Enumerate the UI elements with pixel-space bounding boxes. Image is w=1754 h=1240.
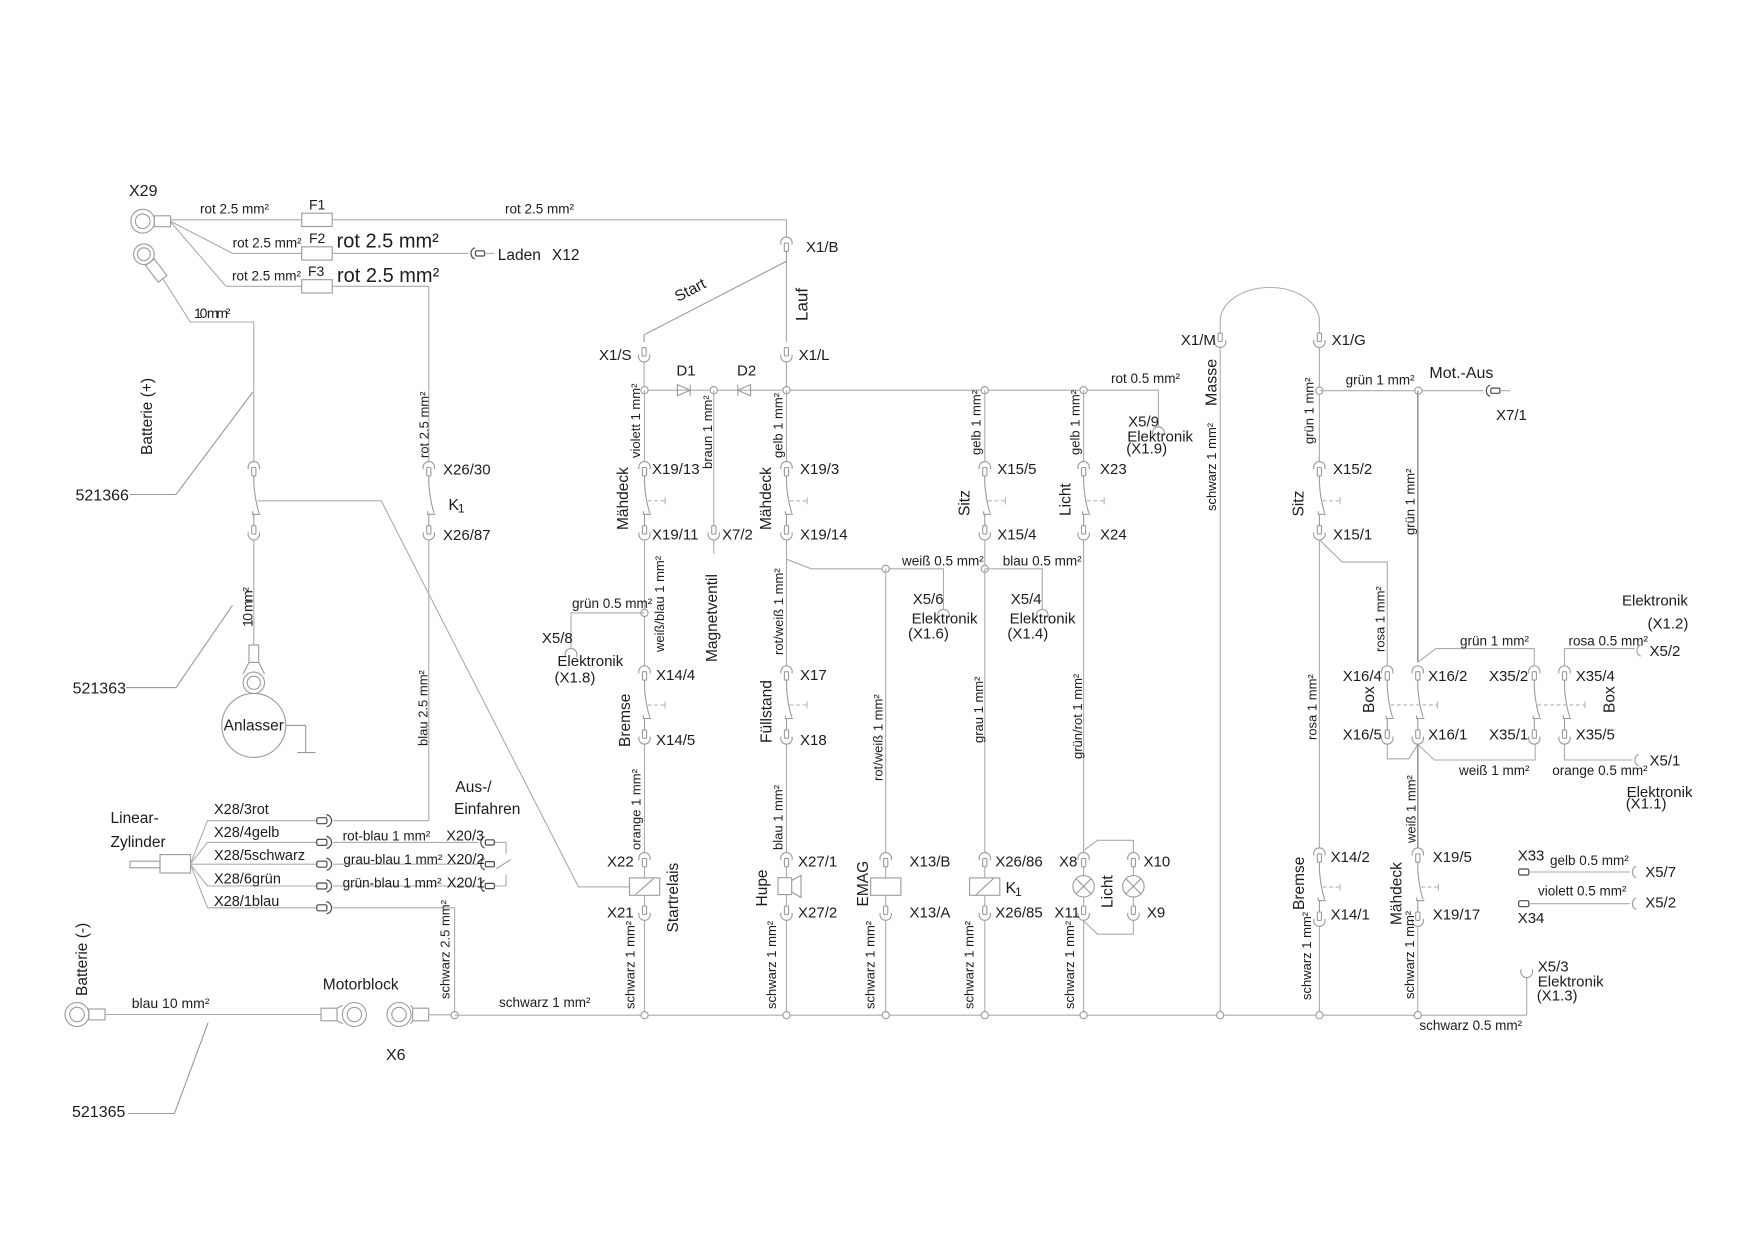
svg-text:X5/2: X5/2: [1650, 643, 1681, 660]
node ground bus at K1 column: [981, 1012, 988, 1019]
wire lead X28/6 gruen: [191, 864, 317, 887]
connector X7/2: [708, 526, 753, 544]
label Magnetventil: [704, 574, 721, 662]
connector X21: [607, 905, 650, 922]
connector X19/3: [781, 461, 839, 478]
label Maehdeck left: [615, 467, 632, 530]
label Fuellstand: [759, 680, 776, 743]
svg-text:(X1.8): (X1.8): [555, 670, 596, 687]
svg-text:rosa 1 mm²: rosa 1 mm²: [1304, 674, 1319, 740]
svg-text:X5/7: X5/7: [1645, 864, 1676, 881]
wire lead X28/4 gelb: [191, 825, 317, 864]
connector X15/5: [979, 461, 1036, 478]
connector X19/11: [639, 526, 699, 544]
svg-text:grau-blau 1 mm²: grau-blau 1 mm²: [343, 852, 443, 867]
connector X19/14: [781, 526, 848, 544]
diode D1: [676, 362, 695, 395]
wire gelb 1 mm² to X23: [1068, 389, 1084, 461]
label Batterie (+): [139, 378, 156, 455]
terminal X5/2 Elektronik (X1.2): [1622, 593, 1688, 661]
connector X14/1: [1314, 906, 1370, 926]
switch contact between X19/3 and X19/14: [785, 476, 807, 526]
svg-text:X26/85: X26/85: [995, 905, 1043, 922]
node bus at X1/L column: [783, 387, 790, 394]
svg-text:10 mm²: 10 mm²: [194, 305, 231, 321]
wire orange 1 mm² X14/5 to X22: [629, 744, 645, 853]
connector X34: [1518, 901, 1545, 927]
wire start feed from switch to Startrelais: [258, 501, 630, 887]
svg-text:weiß 1 mm²: weiß 1 mm²: [1404, 774, 1419, 844]
svg-text:rot/weiß 1 mm²: rot/weiß 1 mm²: [871, 694, 886, 781]
svg-text:Bremse: Bremse: [617, 694, 634, 747]
connector X19/13: [639, 461, 700, 478]
connector X26/85: [979, 905, 1043, 922]
node junction gruen at X1/G column: [1316, 387, 1323, 394]
svg-text:blau 2.5 mm²: blau 2.5 mm²: [416, 669, 431, 746]
switch contact between X17 and X18: [785, 680, 807, 730]
wire blau 10 mm² battery negative: [106, 995, 322, 1015]
ring terminal X29: [129, 183, 171, 233]
ring terminal X6: [386, 1003, 429, 1065]
wire 10 mm² battery positive: [163, 279, 255, 627]
label Box left: [1361, 686, 1378, 713]
label Bremse left: [617, 694, 634, 747]
svg-text:F3: F3: [308, 263, 325, 279]
switch contact X16/4-X16/5: [1386, 680, 1394, 730]
label Sitz left: [957, 490, 974, 516]
svg-text:X8: X8: [1059, 854, 1077, 871]
svg-text:X5/4: X5/4: [1011, 591, 1042, 608]
terminal X5/4 Elektronik (X1.4): [1007, 591, 1076, 642]
wire lead X28/5 schwarz: [191, 848, 317, 864]
wire grau 1 mm² to X26/86: [971, 569, 986, 853]
svg-text:Einfahren: Einfahren: [454, 801, 520, 818]
svg-text:X28/3rot: X28/3rot: [214, 802, 269, 818]
svg-text:X14/1: X14/1: [1331, 906, 1370, 923]
svg-text:weiß 0.5 mm²: weiß 0.5 mm²: [901, 553, 984, 568]
wire Lauf X1/B to X1/L: [785, 261, 787, 342]
svg-text:X27/2: X27/2: [798, 905, 837, 922]
svg-text:(X1.4): (X1.4): [1007, 625, 1048, 642]
svg-text:braun 1 mm²: braun 1 mm²: [700, 395, 715, 469]
actuator link Box left: [1391, 701, 1438, 708]
node ground bus at Bremse column: [1316, 1012, 1323, 1019]
svg-text:X28/4gelb: X28/4gelb: [214, 825, 279, 841]
switch contact between X15/5 and X15/4: [984, 476, 1006, 526]
svg-text:Magnetventil: Magnetventil: [704, 574, 721, 662]
connector X20/1: [447, 876, 495, 892]
connector X18: [781, 730, 827, 749]
svg-text:521363: 521363: [73, 681, 126, 698]
node ground bus at Maehdeck column: [1414, 1012, 1421, 1019]
node ground bus at Licht column: [1080, 1012, 1087, 1019]
label Maehdeck right: [1389, 862, 1406, 925]
svg-text:X19/5: X19/5: [1433, 849, 1472, 866]
svg-text:X24: X24: [1100, 527, 1127, 544]
svg-text:grün 1 mm²: grün 1 mm²: [1403, 468, 1418, 535]
connector X15/2: [1314, 461, 1373, 478]
node bus at Magnetventil column: [710, 387, 717, 394]
wire rosa 0.5 mm² X35/4 to X5/2: [1565, 634, 1649, 666]
net ground bus schwarz 1 mm²: [455, 1014, 1527, 1016]
terminal X5/8 Elektronik (X1.8): [542, 630, 624, 687]
wire violett 1 mm² to X19/13: [628, 383, 645, 462]
wire schwarz 1 mm² X13/A to ground bus: [863, 920, 886, 1015]
svg-text:X22: X22: [607, 854, 634, 871]
connector X28/6: [317, 880, 332, 892]
svg-text:X1/S: X1/S: [599, 347, 632, 364]
node ground bus at Hupe column: [783, 1012, 790, 1019]
svg-text:X14/5: X14/5: [656, 732, 695, 749]
actuator link Box right: [1538, 701, 1585, 708]
svg-text:F2: F2: [309, 230, 326, 246]
svg-text:X35/2: X35/2: [1489, 668, 1528, 685]
switch contact between X14/4 and X14/5: [643, 680, 665, 730]
svg-text:Lauf: Lauf: [793, 288, 812, 321]
connector X35/5: [1559, 727, 1615, 745]
wire link X16/5 to X16/1: [1387, 744, 1418, 759]
label Batterie (-): [74, 923, 91, 996]
node junction gruen down branch: [1415, 387, 1422, 394]
svg-text:X28/5schwarz: X28/5schwarz: [214, 848, 305, 864]
svg-text:(X1.9): (X1.9): [1126, 440, 1167, 457]
terminal X5/7: [1632, 864, 1676, 881]
wire gelb 1 mm² to X19/3: [771, 390, 787, 462]
label Maehdeck 2nd: [758, 467, 775, 530]
wire schwarz 1 mm² X21 to ground bus: [623, 920, 645, 1015]
svg-text:X35/5: X35/5: [1576, 727, 1615, 744]
wire schwarz 1 mm² X27/2 to ground bus: [764, 920, 787, 1015]
switch blade at X20/2: [496, 860, 510, 869]
svg-text:Mot.-Aus: Mot.-Aus: [1429, 365, 1493, 382]
terminal X5/9 Elektronik (X1.9): [1126, 414, 1193, 458]
svg-text:X5/6: X5/6: [913, 591, 944, 608]
svg-text:schwarz 1 mm²: schwarz 1 mm²: [623, 920, 638, 1009]
svg-text:X1/B: X1/B: [806, 239, 839, 256]
svg-text:X26/30: X26/30: [443, 461, 491, 478]
node ground bus at Masse column: [1217, 1012, 1224, 1019]
svg-text:rot 2.5 mm²: rot 2.5 mm²: [337, 265, 440, 287]
wire lamp top bracket to X10: [1084, 840, 1134, 852]
wire weiss 1 mm² X16/1 down to X19/5: [1404, 744, 1419, 848]
terminal X5/3 Elektronik (X1.3): [1521, 959, 1604, 1005]
svg-text:X15/4: X15/4: [997, 527, 1036, 544]
svg-text:grün 0.5 mm²: grün 0.5 mm²: [572, 596, 653, 611]
svg-text:X21: X21: [607, 905, 634, 922]
svg-text:Motorblock: Motorblock: [323, 977, 399, 994]
wire rot/weiss 1 mm² to X13/B: [871, 569, 886, 853]
wire stub X20/3: [495, 842, 506, 853]
connector X33: [1518, 847, 1545, 875]
svg-text:Box: Box: [1602, 686, 1619, 713]
svg-text:orange 0.5 mm²: orange 0.5 mm²: [1552, 763, 1648, 778]
svg-text:X18: X18: [800, 732, 827, 749]
svg-text:schwarz 1 mm²: schwarz 1 mm²: [499, 995, 591, 1010]
svg-text:schwarz 0.5 mm²: schwarz 0.5 mm²: [1419, 1018, 1522, 1033]
wire schwarz 1 mm² Masse to ground bus: [1204, 347, 1220, 1015]
svg-text:Batterie (-): Batterie (-): [74, 923, 91, 996]
wire braun 1 mm² to X7/2: [700, 390, 715, 526]
wire blau 1 mm² X18 to X27/1: [771, 744, 787, 853]
svg-text:X27/1: X27/1: [798, 854, 837, 871]
svg-text:Batterie (+): Batterie (+): [139, 378, 156, 455]
svg-text:X16/2: X16/2: [1428, 668, 1467, 685]
connector battery switch bottom: [248, 526, 259, 540]
connector X26/86: [979, 853, 1043, 871]
svg-text:X16/4: X16/4: [1343, 668, 1382, 685]
svg-text:F1: F1: [309, 196, 326, 212]
connector X35/1: [1489, 727, 1540, 745]
svg-text:X20/2: X20/2: [447, 852, 485, 868]
label Licht switch: [1058, 483, 1075, 516]
connector X1/B: [781, 237, 839, 256]
svg-text:X16/5: X16/5: [1343, 727, 1382, 744]
connector X16/5: [1343, 727, 1393, 745]
svg-text:X20/1: X20/1: [447, 876, 485, 892]
wire schwarz 1 mm² X11 to ground bus: [1062, 920, 1084, 1015]
node junction to X5/8: [641, 609, 648, 616]
svg-text:Füllstand: Füllstand: [759, 680, 776, 743]
terminal X12 Laden: [471, 247, 579, 264]
starter motor Anlasser: [222, 693, 286, 757]
svg-text:schwarz 1 mm²: schwarz 1 mm²: [1204, 422, 1219, 511]
connector X27/2: [781, 905, 837, 922]
wire gruen/rot 1 mm² X24 to X8: [1070, 540, 1085, 853]
svg-text:Licht: Licht: [1100, 875, 1117, 908]
svg-text:blau 1 mm²: blau 1 mm²: [771, 784, 786, 850]
label K1 contact: [448, 497, 465, 516]
wire orange 0.5 mm² X35/5 to X5/1: [1552, 744, 1648, 778]
solenoid EMAG: [855, 861, 901, 907]
svg-text:gelb 1 mm²: gelb 1 mm²: [771, 392, 786, 458]
svg-text:X28/1blau: X28/1blau: [214, 894, 279, 910]
svg-text:Startrelais: Startrelais: [665, 862, 682, 932]
ring terminal starter: [243, 645, 264, 694]
wire weiss 1 mm² X16/1 to X35/1: [1418, 744, 1535, 778]
wire gruen 1 mm² to Mot.-Aus X7/1: [1319, 373, 1483, 391]
svg-text:X15/5: X15/5: [997, 461, 1036, 478]
svg-text:schwarz 1 mm²: schwarz 1 mm²: [1062, 920, 1077, 1009]
connector X28/1: [317, 902, 332, 914]
connector X35/4: [1559, 666, 1615, 685]
svg-text:grün 1 mm²: grün 1 mm²: [1346, 373, 1416, 388]
svg-text:X26/87: X26/87: [443, 527, 491, 544]
node ground bus at Startrelais column: [641, 1012, 648, 1019]
connector X19/5: [1412, 848, 1472, 866]
svg-text:rot 2.5 mm²: rot 2.5 mm²: [337, 230, 440, 252]
fuse F3: [302, 263, 333, 293]
svg-text:schwarz 2.5 mm²: schwarz 2.5 mm²: [438, 899, 453, 999]
wire weiss/blau 1 mm² X19/11 to X14/4: [645, 540, 668, 666]
svg-text:Bremse: Bremse: [1291, 857, 1308, 910]
svg-text:(X1.1): (X1.1): [1626, 796, 1667, 813]
node ground bus at EMAG column: [882, 1012, 889, 1019]
svg-text:X19/13: X19/13: [652, 461, 700, 478]
wire X1/L to bus node: [785, 362, 787, 387]
svg-text:Elektronik: Elektronik: [557, 653, 623, 670]
svg-text:X14/2: X14/2: [1331, 849, 1370, 866]
label Bremse right: [1291, 857, 1308, 910]
switch contact X16/2-X16/1: [1417, 680, 1425, 730]
svg-text:Sitz: Sitz: [957, 490, 974, 516]
svg-text:rosa 1 mm²: rosa 1 mm²: [1373, 586, 1388, 652]
svg-text:violett 0.5 mm²: violett 0.5 mm²: [1538, 883, 1627, 898]
terminal X5/2 lower: [1632, 894, 1676, 911]
wire violett 0.5 mm² X34 to X5/2: [1529, 883, 1630, 903]
svg-text:X11: X11: [1054, 905, 1080, 922]
wire rosa 1 mm² X15/1 to X14/2: [1304, 540, 1319, 848]
connector X9: [1128, 905, 1166, 922]
wire schwarz 1 mm² X14/1 to ground bus: [1299, 911, 1319, 1015]
svg-text:X1/L: X1/L: [799, 347, 830, 364]
label Box right: [1602, 686, 1619, 713]
wire schwarz 1 mm² X6 to ground bus: [429, 995, 591, 1015]
terminal X7/1 Mot.-Aus: [1429, 365, 1526, 424]
wire riser to X5/3: [1526, 977, 1528, 1015]
svg-text:X20/3: X20/3: [446, 828, 484, 844]
connector X20/2: [447, 852, 495, 870]
svg-text:Licht: Licht: [1058, 483, 1075, 516]
connector X14/4: [639, 666, 695, 684]
svg-text:schwarz 1 mm²: schwarz 1 mm²: [863, 920, 878, 1009]
svg-text:X19/3: X19/3: [800, 461, 839, 478]
svg-text:X19/14: X19/14: [800, 527, 848, 544]
svg-text:X28/6grün: X28/6grün: [214, 872, 281, 888]
svg-text:X26/86: X26/86: [995, 854, 1043, 871]
svg-text:D2: D2: [737, 362, 756, 379]
node junction blau 0.5 branch: [981, 565, 988, 572]
svg-text:Box: Box: [1361, 686, 1378, 713]
connector X26/30: [423, 461, 490, 478]
svg-text:Anlasser: Anlasser: [224, 718, 284, 735]
svg-text:weiß 1 mm²: weiß 1 mm²: [1458, 763, 1530, 778]
svg-text:violett 1 mm²: violett 1 mm²: [628, 383, 643, 458]
connector X15/4: [979, 526, 1036, 544]
node junction EMAG feed: [882, 565, 889, 572]
svg-text:orange 1 mm²: orange 1 mm²: [629, 768, 644, 850]
wire arc X1/M to X1/G: [1220, 287, 1319, 333]
svg-text:rot 2.5 mm²: rot 2.5 mm²: [232, 269, 302, 284]
wire rot 2.5 mm² from X29 to fuse F1: [171, 202, 302, 220]
svg-text:X23: X23: [1100, 461, 1127, 478]
svg-text:X1/G: X1/G: [1332, 332, 1366, 349]
wire gelb 0.5 mm² X33 to X5/7: [1529, 853, 1630, 872]
connector X28/5: [317, 858, 332, 870]
svg-text:gelb 1 mm²: gelb 1 mm²: [969, 389, 984, 455]
svg-text:X9: X9: [1147, 905, 1165, 922]
relay K1 coil: [970, 867, 1022, 906]
switch contact X35/4-X35/5: [1563, 680, 1571, 730]
svg-text:X19/17: X19/17: [1433, 906, 1481, 923]
svg-text:1: 1: [1015, 885, 1022, 899]
wire gruen-blau 1 mm² X28/6 to X20/1: [333, 876, 479, 891]
svg-text:schwarz 1 mm²: schwarz 1 mm²: [764, 920, 779, 1009]
connector X16/2: [1412, 666, 1467, 685]
svg-text:Elektronik: Elektronik: [1622, 593, 1688, 610]
wire gelb 1 mm² to X15/5: [969, 389, 985, 461]
connector X24: [1078, 526, 1127, 544]
fuse F2: [302, 230, 333, 260]
wire X28/3 to blau 2.5 junction: [333, 820, 429, 822]
svg-text:rot 2.5 mm²: rot 2.5 mm²: [200, 202, 270, 217]
svg-text:521365: 521365: [72, 1104, 125, 1121]
connector X1/G: [1314, 332, 1366, 349]
connector X8: [1059, 853, 1089, 871]
connector X10: [1128, 853, 1171, 871]
connector X28/4: [317, 836, 332, 848]
svg-text:1: 1: [458, 502, 465, 516]
svg-text:rot/weiß 1 mm²: rot/weiß 1 mm²: [771, 568, 786, 655]
svg-text:X13/B: X13/B: [910, 854, 951, 871]
connector X1/L: [781, 347, 830, 364]
wire lead X28/1 blau: [191, 865, 317, 910]
svg-text:X29: X29: [129, 183, 158, 200]
lamp Licht 2: [1123, 867, 1144, 906]
svg-text:(X1.6): (X1.6): [908, 625, 949, 642]
svg-text:X7/1: X7/1: [1496, 407, 1527, 424]
svg-text:blau 0.5 mm²: blau 0.5 mm²: [1003, 553, 1082, 568]
svg-text:X10: X10: [1144, 854, 1171, 871]
svg-text:X16/1: X16/1: [1428, 727, 1467, 744]
svg-text:X5/8: X5/8: [542, 630, 573, 647]
svg-text:X33: X33: [1518, 847, 1545, 864]
wire X15/4 down through junction: [984, 540, 986, 569]
connector X11: [1054, 905, 1089, 922]
switch contact between X26/30 and X26/87: [428, 476, 436, 526]
wire rot 2.5 mm² from F2 to Laden X12: [332, 230, 468, 253]
svg-text:rot 2.5 mm²: rot 2.5 mm²: [417, 391, 432, 458]
connector X14/2: [1314, 848, 1370, 866]
svg-text:X34: X34: [1518, 910, 1545, 927]
wire weiss 0.5 mm² branch to X5/6: [787, 553, 985, 609]
relay Startrelais: [630, 862, 682, 932]
svg-text:rot 2.5 mm²: rot 2.5 mm²: [233, 236, 303, 251]
svg-text:Aus-/: Aus-/: [455, 779, 492, 796]
svg-text:(X1.2): (X1.2): [1648, 616, 1689, 633]
wire schwarz 1 mm² X26/85 to ground bus: [962, 920, 985, 1015]
label Licht lamps: [1100, 875, 1117, 908]
net run bus rot 0.5 mm²: [645, 371, 1181, 427]
wire blau 0.5 mm² branch to X5/4: [985, 553, 1082, 609]
wire Start diagonal X1/B to X1/S: [644, 251, 786, 342]
wire grau-blau 1 mm² X28/5 to X20/2: [333, 852, 479, 867]
node junction schwarz 2.5 at ground bus: [451, 1012, 458, 1019]
connector X20/3: [446, 828, 494, 848]
svg-text:X15/2: X15/2: [1333, 461, 1372, 478]
wire rot 2.5 mm² from X29 to fuse F3: [171, 222, 302, 286]
switch contact between X23 and X24: [1083, 476, 1105, 526]
svg-text:D1: D1: [676, 362, 695, 379]
lamp Licht 1: [1073, 867, 1094, 906]
connector X13/A: [880, 905, 950, 922]
wire X1/S to bus node: [643, 362, 645, 387]
horn Hupe: [754, 867, 801, 907]
switch contact between X19/13 and X19/11: [643, 476, 665, 526]
switch contact between X19/5 and X19/17: [1417, 862, 1439, 912]
ring terminal battery positive: [134, 244, 167, 282]
connector X16/1: [1412, 727, 1467, 745]
wire gruen 1 mm² to X16/2: [1403, 391, 1418, 663]
label schwarz 0.5 mm² bus tail: [1419, 1018, 1522, 1033]
svg-text:Laden: Laden: [498, 247, 541, 264]
connector X23: [1078, 461, 1127, 478]
wire gruen 1 mm² X1/G down to X15/2: [1302, 347, 1320, 462]
connector X19/17: [1412, 906, 1480, 926]
node bus at Licht column: [1080, 387, 1087, 394]
wire schwarz 2.5 mm² X28/1 to ground bus: [333, 899, 455, 1015]
connector X1/S: [599, 347, 650, 364]
switch contact between X15/2 and X15/1: [1318, 476, 1340, 526]
